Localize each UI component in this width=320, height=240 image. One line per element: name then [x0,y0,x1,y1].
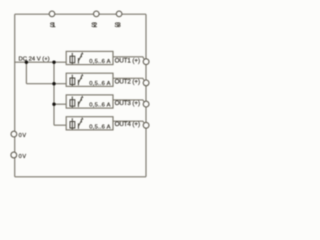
svg-text:S2: S2 [91,22,97,29]
svg-text:0,5..6 A: 0,5..6 A [89,103,110,109]
svg-text:S3: S3 [115,22,122,29]
svg-text:S1: S1 [50,22,56,29]
svg-text:OUT1 (+): OUT1 (+) [115,58,140,65]
svg-text:OUT4 (+): OUT4 (+) [115,121,140,128]
svg-text:0,5..6 A: 0,5..6 A [89,59,110,65]
svg-text:0,5..6 A: 0,5..6 A [89,124,110,130]
svg-text:DC 24 V (+): DC 24 V (+) [19,56,50,62]
svg-text:0,5..6 A: 0,5..6 A [89,81,110,87]
svg-text:0 V: 0 V [19,154,27,160]
svg-text:OUT3 (+): OUT3 (+) [115,100,140,107]
svg-text:OUT2 (+): OUT2 (+) [115,79,140,86]
svg-text:0 V: 0 V [19,133,27,139]
